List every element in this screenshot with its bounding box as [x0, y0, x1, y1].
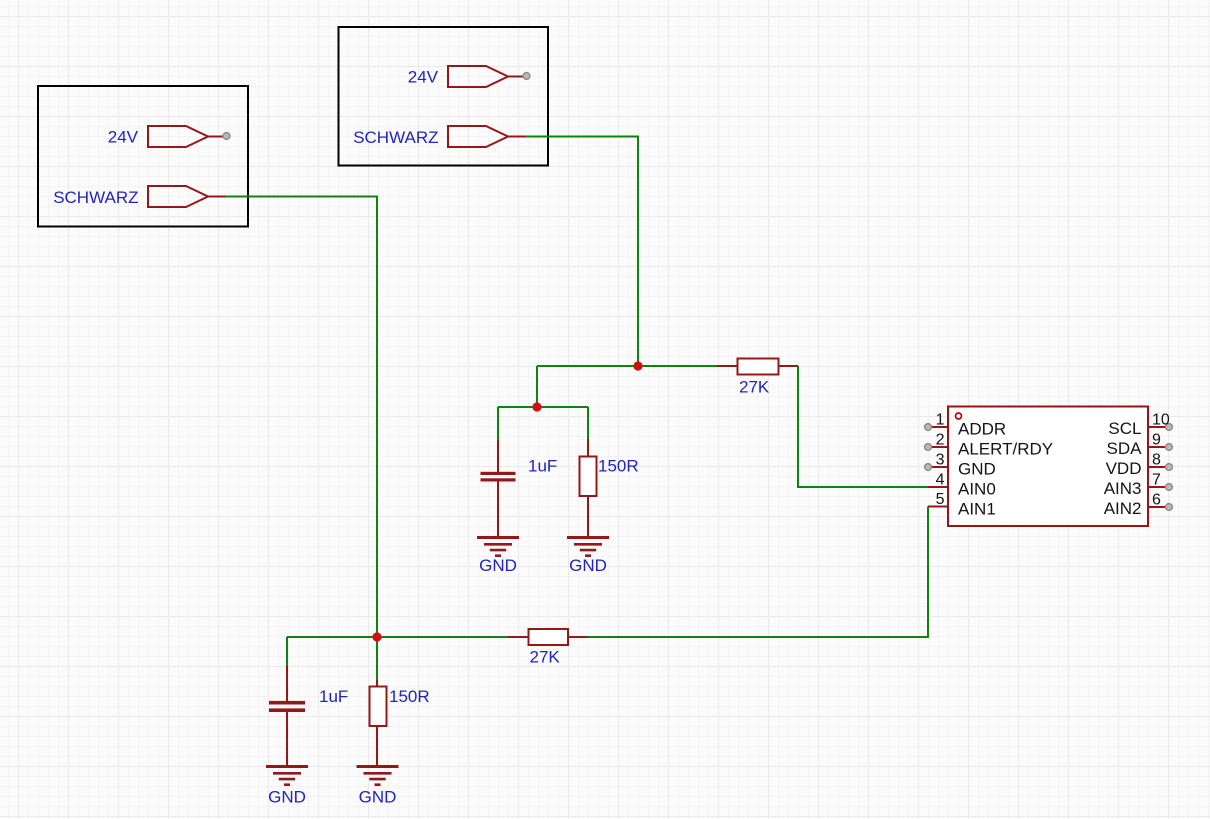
svg-text:GND: GND	[479, 556, 517, 575]
svg-text:9: 9	[1152, 432, 1161, 449]
svg-text:ADDR: ADDR	[958, 420, 1006, 439]
svg-text:150R: 150R	[389, 687, 430, 706]
svg-text:8: 8	[1152, 452, 1161, 469]
svg-text:1uF: 1uF	[528, 457, 557, 476]
svg-text:4: 4	[936, 472, 945, 489]
svg-text:SCHWARZ: SCHWARZ	[53, 188, 138, 207]
svg-text:24V: 24V	[108, 128, 139, 147]
svg-text:6: 6	[1152, 492, 1161, 509]
svg-text:AIN1: AIN1	[958, 500, 996, 519]
svg-text:7: 7	[1152, 472, 1161, 489]
svg-text:24V: 24V	[408, 68, 439, 87]
svg-text:10: 10	[1152, 412, 1170, 429]
svg-text:ALERT/RDY: ALERT/RDY	[958, 440, 1053, 459]
svg-text:GND: GND	[359, 788, 397, 807]
svg-text:SCHWARZ: SCHWARZ	[353, 128, 438, 147]
svg-text:27K: 27K	[739, 378, 770, 397]
svg-text:5: 5	[936, 491, 945, 508]
svg-text:VDD: VDD	[1106, 459, 1142, 478]
svg-text:GND: GND	[268, 788, 306, 807]
svg-text:SCL: SCL	[1108, 419, 1141, 438]
svg-text:3: 3	[936, 452, 945, 469]
svg-text:1uF: 1uF	[319, 687, 348, 706]
svg-text:27K: 27K	[530, 648, 561, 667]
svg-text:SDA: SDA	[1107, 439, 1143, 458]
svg-text:2: 2	[936, 432, 945, 449]
svg-text:GND: GND	[569, 556, 607, 575]
svg-text:AIN0: AIN0	[958, 480, 996, 499]
svg-text:GND: GND	[958, 460, 996, 479]
svg-text:1: 1	[936, 412, 945, 429]
svg-text:150R: 150R	[598, 457, 639, 476]
svg-text:AIN2: AIN2	[1104, 499, 1142, 518]
svg-text:AIN3: AIN3	[1104, 479, 1142, 498]
